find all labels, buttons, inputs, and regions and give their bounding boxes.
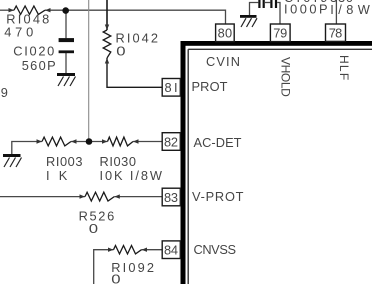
svg-text:CI020: CI020 <box>13 44 54 59</box>
svg-text:0: 0 <box>116 43 125 58</box>
svg-text:84: 84 <box>164 243 178 258</box>
svg-text:CVIN: CVIN <box>206 54 240 69</box>
svg-text:RI003: RI003 <box>46 154 83 169</box>
svg-text:330: 330 <box>330 0 353 5</box>
svg-text:80: 80 <box>218 26 233 41</box>
svg-text:82: 82 <box>164 134 178 149</box>
svg-text:8I: 8I <box>165 80 178 95</box>
svg-text:V-PROT: V-PROT <box>192 189 244 204</box>
svg-text:VHOLD: VHOLD <box>279 57 293 97</box>
svg-text:RI030: RI030 <box>100 154 137 169</box>
svg-text:78: 78 <box>329 26 343 41</box>
svg-text:CI0I9: CI0I9 <box>284 0 328 5</box>
svg-text:9: 9 <box>1 85 8 100</box>
svg-text:I0K I/8W: I0K I/8W <box>100 168 163 183</box>
svg-text:79: 79 <box>273 26 287 41</box>
svg-text:0: 0 <box>89 221 98 236</box>
svg-text:AC-DET: AC-DET <box>194 135 242 150</box>
svg-text:470: 470 <box>4 24 33 39</box>
svg-text:HLF: HLF <box>337 55 351 80</box>
svg-text:0: 0 <box>111 271 120 284</box>
svg-text:CNVSS: CNVSS <box>194 242 237 257</box>
svg-text:83: 83 <box>164 190 178 205</box>
svg-text:560P: 560P <box>22 58 56 73</box>
svg-text:PROT: PROT <box>192 79 228 94</box>
